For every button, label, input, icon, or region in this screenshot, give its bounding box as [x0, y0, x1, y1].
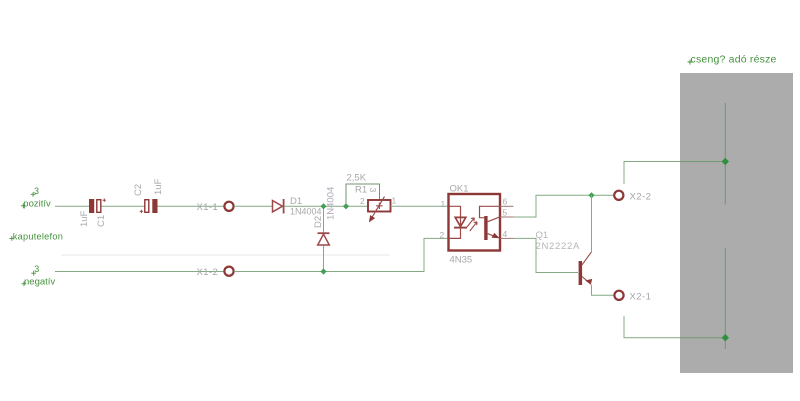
svg-text:5: 5	[503, 208, 508, 218]
wire X1-1 to D1	[234, 205, 273, 207]
svg-text:D1: D1	[290, 196, 302, 207]
text origin cross	[31, 192, 36, 197]
wire Q1 collector to node	[591, 195, 593, 252]
transistor Q1	[579, 252, 593, 285]
wire module upper segment	[724, 103, 726, 205]
svg-text:3: 3	[368, 188, 378, 193]
svg-text:1uF: 1uF	[79, 210, 90, 227]
capacitor C2	[140, 199, 158, 213]
svg-text:4N35: 4N35	[450, 255, 473, 266]
svg-text:1N4004: 1N4004	[290, 207, 322, 217]
wire Q1 emitter to X2-1	[592, 285, 615, 296]
wire R1 to OK1 pin1	[391, 205, 449, 207]
svg-text:negatív: negatív	[24, 276, 55, 287]
svg-text:C2: C2	[133, 184, 144, 196]
optocoupler OK1	[449, 194, 501, 251]
module box (csengő adó része)	[680, 73, 793, 373]
svg-text:C1: C1	[96, 215, 107, 227]
wire X2-2 to module	[624, 162, 680, 184]
svg-text:kaputelefon: kaputelefon	[13, 232, 63, 242]
junction D2 bottom node	[320, 268, 326, 274]
capacitor C1	[89, 199, 106, 214]
text origin cross pozitiv	[21, 203, 26, 208]
wire pozitiv to C1	[55, 205, 89, 207]
svg-text:D2: D2	[313, 216, 324, 228]
diode D2	[318, 233, 330, 245]
svg-text:2: 2	[440, 230, 445, 240]
junction module upper node	[722, 158, 729, 165]
svg-text:X1-1: X1-1	[197, 202, 219, 213]
wire OK1 pin5 to X2-2	[514, 195, 615, 217]
text origin cross for module label	[688, 60, 693, 65]
svg-text:cseng? adó része: cseng? adó része	[691, 54, 777, 66]
svg-text:2N2222A: 2N2222A	[536, 241, 581, 252]
faint ghost wire	[61, 254, 390, 256]
junction module lower node	[722, 334, 729, 341]
pin stub OK1 pin6	[500, 205, 514, 207]
connector pin X1-1	[224, 202, 233, 211]
wire D1 to R1	[284, 205, 368, 207]
svg-text:1: 1	[392, 196, 397, 206]
svg-text:1N4004: 1N4004	[326, 187, 337, 220]
wire C2 to X1-1	[158, 205, 225, 207]
wire X2-1 to module	[624, 316, 680, 338]
wire X2-1 segment over module	[680, 337, 725, 339]
wire D2 bottom	[323, 246, 325, 272]
junction D1/D2 node	[320, 203, 326, 209]
wire OK1 pin4 to Q1 base	[514, 238, 579, 272]
connector pin X2-1	[614, 291, 623, 300]
svg-text:2,5K: 2,5K	[347, 173, 367, 184]
svg-text:1: 1	[441, 199, 446, 209]
text origin cross kaputelefon	[9, 236, 14, 241]
wire module lower segment	[724, 248, 726, 349]
svg-text:4: 4	[503, 229, 508, 239]
wire stub D2 top	[323, 206, 325, 232]
text origin cross	[31, 271, 36, 276]
pin stub OK1 pin5	[500, 216, 514, 218]
svg-text:Q1: Q1	[536, 230, 549, 241]
wire X1-2 to OK1 pin2	[234, 238, 449, 271]
svg-text:X2-2: X2-2	[630, 191, 652, 202]
wire C1 to C2	[102, 205, 146, 207]
svg-text:3: 3	[34, 264, 39, 274]
connector pin X2-2	[614, 191, 623, 200]
pin stub OK1 pin4	[500, 237, 514, 239]
wire X2-2 segment over module	[680, 161, 725, 163]
svg-text:pozitív: pozitív	[23, 199, 51, 210]
wire R1 wiper loop	[346, 184, 380, 206]
wire negativ rail to X1-2	[55, 271, 224, 273]
text origin cross negativ	[22, 281, 27, 286]
junction Q1 collector node	[588, 192, 594, 198]
svg-text:2: 2	[360, 196, 365, 206]
connector pin X1-2	[224, 267, 233, 276]
svg-text:X2-1: X2-1	[630, 291, 652, 302]
svg-text:1uF: 1uF	[153, 178, 164, 195]
svg-text:X1-2: X1-2	[197, 267, 219, 278]
svg-text:R1: R1	[355, 185, 367, 196]
svg-text:6: 6	[503, 197, 508, 207]
diode D1	[273, 199, 284, 214]
trimmer resistor R1	[368, 197, 391, 222]
junction R1 wiper node	[343, 203, 349, 209]
